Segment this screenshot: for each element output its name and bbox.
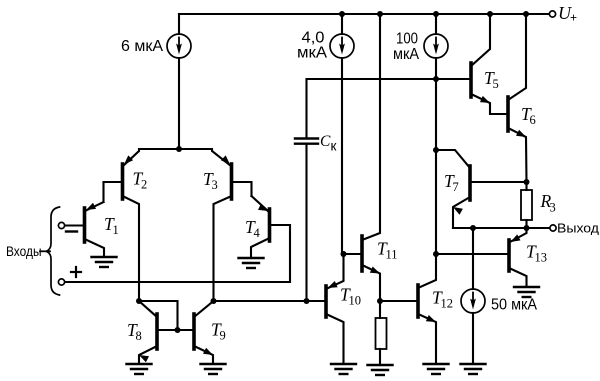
wire T4 collector <box>251 238 270 257</box>
svg-text:2: 2 <box>141 178 147 192</box>
ground T9 <box>201 364 226 374</box>
wire T1 collector <box>85 239 105 256</box>
brace inputs <box>47 207 60 295</box>
wire T10 collector <box>326 314 344 363</box>
label Vhody <box>6 243 42 259</box>
wire resistor bottom <box>379 349 381 365</box>
wire T12 collector <box>418 254 436 288</box>
wire plus input line <box>65 281 290 283</box>
ground R <box>368 365 393 375</box>
svg-text:Входы: Входы <box>6 243 42 259</box>
wire I2 to T11 base <box>341 58 343 254</box>
svg-text:1: 1 <box>113 223 119 237</box>
wire mirror tie <box>139 301 178 330</box>
capacitor Ck <box>295 133 337 154</box>
wire output line <box>453 227 550 229</box>
transistor T13 <box>509 234 547 271</box>
wire T11 collector <box>362 14 380 240</box>
wire T13 base <box>436 253 509 255</box>
node T10-T11 base <box>341 251 347 257</box>
svg-text:13: 13 <box>535 251 548 265</box>
wire T4 emitter from T3 base <box>252 196 270 212</box>
svg-text:10: 10 <box>349 294 362 308</box>
wire R3 top <box>525 182 527 190</box>
svg-text:3: 3 <box>550 201 556 215</box>
wire T11 emitter <box>362 265 380 301</box>
wire I1 top <box>178 14 180 34</box>
wire Ck bottom <box>305 144 307 301</box>
label minus <box>66 230 77 232</box>
wire T13 collector <box>509 268 527 286</box>
wire Ck node to T5 base <box>342 78 469 80</box>
node T3c-T9 <box>211 298 217 304</box>
terminal input minus <box>58 222 64 228</box>
ground T10 <box>331 364 356 374</box>
label 100 <box>396 31 418 48</box>
wire I2 top <box>341 14 343 34</box>
node rail-I3 <box>433 11 439 17</box>
wire T6 collector <box>508 14 526 100</box>
transistor T5 <box>471 63 499 103</box>
wire T1 emitter to T2 base <box>85 202 104 211</box>
wire T9 emitter <box>194 346 213 363</box>
node T7 collector <box>433 147 439 153</box>
transistor T12 <box>418 285 453 322</box>
wire R3 bottom <box>525 220 527 228</box>
wire T3 collector <box>214 196 232 301</box>
current source I2 4uA <box>330 34 354 58</box>
node rail-I2 <box>339 11 345 17</box>
wire T12 base <box>380 300 418 302</box>
transistor T8 <box>127 314 157 362</box>
ground T12 <box>424 364 449 374</box>
svg-text:Выход: Выход <box>557 222 600 236</box>
node I4 top <box>470 225 476 231</box>
resistor R <box>376 318 387 349</box>
svg-text:12: 12 <box>441 297 454 311</box>
svg-text:мкА: мкА <box>297 45 328 62</box>
wire stage1 out <box>214 300 326 302</box>
transistor T1 <box>85 203 119 242</box>
wire T10 emitter <box>326 254 344 289</box>
wire T5 collector <box>471 14 490 66</box>
node first-stage tail <box>176 146 182 152</box>
wire T7 base <box>470 181 527 183</box>
node I3 out <box>433 76 439 82</box>
wire T8 T9 bases <box>157 329 194 331</box>
svg-text:11: 11 <box>386 248 398 262</box>
wire T2 collector <box>123 196 140 301</box>
svg-text:5: 5 <box>493 77 499 91</box>
node mirror bases <box>175 327 181 333</box>
svg-text:к: к <box>331 139 337 154</box>
wire U+ rail <box>179 13 551 15</box>
transistor T10 <box>326 281 361 317</box>
svg-text:7: 7 <box>453 180 459 194</box>
wire label dash <box>40 250 50 252</box>
label 4,0 mkA <box>297 45 328 62</box>
ground T1 <box>92 257 117 267</box>
node Ck-T10 base <box>304 298 310 304</box>
svg-text:6 мкА: 6 мкА <box>121 38 164 55</box>
node stage2-T13 base <box>433 251 439 257</box>
transistor T6 <box>508 97 536 137</box>
node output <box>524 225 530 231</box>
current source I1 6uA <box>167 34 191 58</box>
node T6e-R3 <box>524 179 530 185</box>
ground I4 <box>461 364 486 374</box>
ground T4 <box>239 258 264 268</box>
wire T1 base <box>65 224 85 226</box>
wire T8 collector <box>139 301 157 317</box>
label U+ <box>558 3 577 25</box>
node T11e <box>377 298 383 304</box>
wire Ck top <box>307 79 343 139</box>
svg-text:9: 9 <box>220 329 226 343</box>
ground T13 <box>514 287 539 297</box>
wire tail to T2 <box>123 149 179 166</box>
wire T5 emitter <box>471 94 508 114</box>
current source I3 100uA <box>424 34 448 58</box>
resistor R3 <box>521 190 556 220</box>
label 4,0 <box>302 30 325 47</box>
wire T13 emitter <box>509 228 527 243</box>
node T2c-T8 <box>136 298 142 304</box>
label 6uA <box>121 38 164 55</box>
svg-text:100: 100 <box>396 31 418 48</box>
svg-text:8: 8 <box>136 329 142 343</box>
wire T11 base <box>344 253 363 255</box>
wire I4 bottom <box>472 313 474 363</box>
transistor T11 <box>362 236 398 274</box>
node rail-T11 <box>377 11 383 17</box>
wire T2 base <box>104 182 123 202</box>
wire I4 top <box>472 228 474 289</box>
terminal input plus <box>58 279 64 285</box>
wire resistor top <box>379 301 381 318</box>
transistor T4 <box>245 204 270 241</box>
node rail-T6 <box>523 11 529 17</box>
wire tail to T3 <box>179 149 231 166</box>
svg-text:3: 3 <box>212 178 218 192</box>
wire I3 top <box>435 14 437 34</box>
wire T12 emitter <box>418 314 436 363</box>
wire T4 base <box>270 225 291 282</box>
transistor T3 <box>203 155 232 199</box>
transistor T2 <box>123 155 148 199</box>
label Vyhod <box>557 222 600 236</box>
label plus <box>71 267 81 277</box>
wire T9 collector <box>194 301 214 317</box>
ground T8 <box>127 364 152 374</box>
wire T8 emitter <box>139 346 157 363</box>
wire T6 emitter <box>508 128 527 182</box>
wire T3 base <box>232 182 252 196</box>
svg-text:мкА: мкА <box>393 46 420 63</box>
wire T7 collector <box>436 150 470 168</box>
terminal output <box>550 225 556 231</box>
node rail-T5 <box>487 11 493 17</box>
svg-text:+: + <box>570 11 577 25</box>
svg-text:6: 6 <box>530 113 536 127</box>
terminal U+ <box>549 11 555 17</box>
svg-text:C: C <box>320 133 331 150</box>
wire T7 emitter <box>453 197 470 228</box>
label 50uA <box>491 297 538 314</box>
current source I4 50uA <box>461 289 485 313</box>
transistor T9 <box>194 314 226 355</box>
transistor T7 <box>444 166 470 215</box>
svg-text:4: 4 <box>254 226 261 240</box>
label 100 mkA <box>393 46 420 63</box>
wire stage2 node <box>435 79 437 254</box>
svg-text:50 мкА: 50 мкА <box>491 297 538 314</box>
wire I1 to input stage <box>178 58 180 149</box>
wire T5 base <box>436 78 471 80</box>
wire I3 out <box>435 58 437 79</box>
